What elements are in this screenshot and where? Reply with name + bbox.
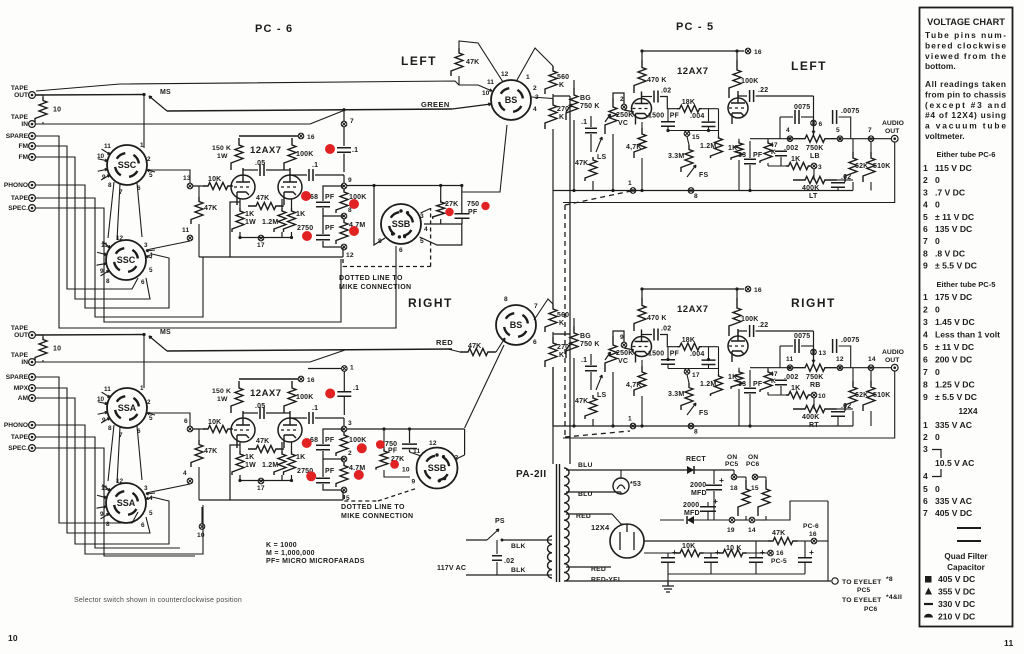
resistor 100K plate (L) [284, 138, 296, 170]
svg-text:250K: 250K [616, 350, 634, 357]
svg-text:.02: .02 [661, 326, 671, 333]
resistor 47K tone (R) [760, 370, 772, 392]
svg-text:K: K [559, 82, 564, 89]
svg-text:17: 17 [692, 372, 700, 379]
svg-text:7: 7 [534, 303, 538, 310]
svg-text:1: 1 [350, 365, 354, 372]
svg-text:8: 8 [106, 521, 110, 528]
svg-text:8: 8 [923, 248, 928, 258]
node 2 (R) [621, 342, 627, 348]
svg-text:560: 560 [557, 74, 569, 81]
resistor 100K chain (L) [336, 189, 348, 213]
pot 250K VC (L) [605, 98, 617, 134]
svg-text:117V AC: 117V AC [437, 565, 466, 572]
svg-text:10: 10 [8, 633, 18, 643]
pot 400K LT (L) [793, 176, 837, 183]
svg-text:from pin to chassis: from pin to chassis [925, 89, 1006, 99]
switch FS (L) [687, 165, 696, 177]
svg-text:*53: *53 [630, 481, 641, 488]
svg-text:750: 750 [467, 201, 479, 208]
voltage chart sidebar [920, 8, 1013, 627]
svg-text:510K: 510K [873, 163, 891, 170]
svg-text:± 5.5 V DC: ± 5.5 V DC [935, 261, 977, 271]
terminal 19 [729, 517, 735, 523]
svg-text:.004: .004 [690, 351, 704, 358]
input selector wiring mesh (L) [36, 136, 396, 328]
resistor 10 (R) [35, 335, 61, 362]
resistor 270K (L) [545, 99, 557, 129]
wire top SSB row (L) [347, 185, 462, 187]
svg-text:12: 12 [346, 252, 354, 259]
node 8 bot (L) [688, 188, 694, 194]
svg-text:47: 47 [770, 142, 778, 149]
resistor 4.7K (L) [634, 128, 646, 158]
node 8 (L) [341, 213, 347, 219]
svg-text:100K: 100K [296, 394, 314, 401]
wire blk bottom [466, 574, 548, 576]
svg-text:+: + [760, 547, 765, 557]
wire signal bus (R) [167, 349, 452, 351]
svg-text:335 V AC: 335 V AC [935, 496, 972, 506]
svg-text:Selector switch shown in count: Selector switch shown in counterclockwis… [74, 597, 242, 604]
node 4 (L) [787, 136, 793, 142]
svg-text:16: 16 [307, 134, 315, 141]
cap 2000MFD a [713, 470, 715, 484]
wire vc (R) [612, 372, 614, 426]
svg-text:11: 11 [104, 143, 111, 150]
svg-text:a vacuum tube: a vacuum tube [925, 121, 1006, 131]
terminal TAPE OUT (R) [11, 325, 36, 339]
svg-text:AM: AM [18, 395, 29, 402]
svg-text:8: 8 [504, 296, 508, 303]
svg-text:LB: LB [810, 153, 820, 160]
node 17 (R) [258, 478, 264, 484]
svg-text:3.3M: 3.3M [668, 391, 684, 398]
node 15 (R) [684, 369, 690, 375]
svg-text:10 K: 10 K [726, 545, 742, 552]
svg-text:1K: 1K [245, 211, 254, 218]
svg-text:12AX7: 12AX7 [677, 304, 709, 315]
svg-text:BLK: BLK [511, 567, 526, 574]
terminal TAPE OUT (L) [11, 85, 36, 99]
svg-text:PA-2II: PA-2II [516, 469, 547, 480]
svg-text:6: 6 [141, 522, 145, 529]
tube socket SSB (R) [417, 448, 458, 489]
svg-text:.02: .02 [661, 88, 671, 95]
node 8 bot (R) [688, 423, 694, 429]
svg-text:47K: 47K [256, 438, 269, 445]
node 1 (R) [308, 368, 341, 370]
wire tape-in bus (R) [36, 361, 310, 363]
svg-text:PF: PF [753, 152, 763, 159]
svg-text:750 K: 750 K [580, 103, 600, 110]
svg-text:16: 16 [754, 287, 762, 294]
svg-text:12X4: 12X4 [591, 523, 610, 532]
svg-text:#4 of 12X4) using: #4 of 12X4) using [925, 110, 1006, 120]
tube socket SSC1 (L) [107, 145, 147, 185]
svg-text:bered clockwise: bered clockwise [925, 40, 1006, 50]
wire box left (L) [779, 117, 781, 139]
svg-text:405 V DC: 405 V DC [935, 508, 972, 518]
svg-text:+: + [713, 496, 718, 506]
node 7 (L) [343, 109, 345, 121]
svg-text:4: 4 [923, 330, 928, 340]
wire .22 drop (L) [813, 96, 815, 135]
terminal ON PC6 15 [752, 474, 758, 480]
svg-text:19: 19 [727, 527, 735, 534]
cap .004 (L) [708, 109, 710, 122]
svg-text:10: 10 [53, 346, 61, 353]
resistor 47K ps [768, 537, 798, 544]
wire to BS2 (R) [465, 345, 504, 428]
junction dots pc6 [372, 184, 375, 187]
svg-text:SPARE: SPARE [6, 133, 29, 140]
svg-text:100K: 100K [741, 316, 759, 323]
svg-text:TAPE: TAPE [11, 195, 29, 202]
wire out row (L) [750, 138, 790, 140]
node 16 (R) [298, 376, 304, 382]
node 17 (L) [258, 235, 264, 241]
resistor 47K tone (L) [760, 141, 772, 163]
svg-text:.7 V DC: .7 V DC [935, 187, 965, 197]
svg-text:4: 4 [183, 470, 187, 477]
terminal eyelet [832, 578, 838, 584]
svg-text:14: 14 [748, 527, 756, 534]
svg-text:BLU: BLU [578, 462, 593, 469]
svg-text:510K: 510K [873, 392, 891, 399]
pin numbers SSA2 (R) [100, 478, 153, 529]
terminal ON PC5 18 [731, 474, 737, 480]
terminal SPARE (L) [6, 133, 36, 140]
svg-text:4: 4 [149, 495, 153, 502]
svg-text:16: 16 [809, 531, 817, 538]
svg-text:560: 560 [557, 312, 569, 319]
svg-text:1K: 1K [296, 454, 305, 461]
resistor 47K col (R) [191, 440, 203, 467]
svg-text:1: 1 [628, 416, 632, 423]
svg-text:MFD: MFD [691, 490, 707, 497]
svg-text:Less than 1 volt: Less than 1 volt [935, 330, 1000, 340]
bus vertical left [552, 129, 554, 191]
terminal 14 [749, 517, 755, 523]
tube socket SSA1 (R) [107, 388, 147, 428]
resistor 27K (L) [440, 186, 442, 201]
svg-text:11: 11 [487, 79, 494, 86]
svg-text:BLK: BLK [511, 543, 526, 550]
svg-text:2: 2 [923, 305, 928, 315]
tube socket BS (L) [491, 80, 531, 120]
svg-text:5: 5 [923, 342, 928, 352]
svg-text:2: 2 [923, 175, 928, 185]
svg-text:18K: 18K [682, 99, 695, 106]
svg-text:1.2M: 1.2M [262, 462, 278, 469]
resistor 470K (R) [634, 298, 646, 331]
pot 750K LB (R) [793, 364, 837, 371]
svg-text:47K: 47K [256, 195, 269, 202]
svg-text:4: 4 [923, 200, 928, 210]
cathode box wires (R) [230, 445, 343, 500]
wire out bottom (L) [563, 142, 895, 203]
svg-text:47K: 47K [468, 343, 481, 350]
cap .0075 a (L) [780, 116, 793, 118]
wire ls bottom (L) [592, 181, 594, 191]
wire signal bus (L) [167, 109, 452, 111]
svg-text:1K: 1K [791, 385, 800, 392]
svg-text:VOLTAGE CHART: VOLTAGE CHART [927, 17, 1005, 27]
terminal SPEC. (L) [8, 205, 35, 212]
cap 2750PF (L) [322, 216, 324, 234]
svg-text:47K: 47K [575, 160, 588, 167]
svg-text:.1: .1 [581, 119, 587, 126]
red dot L2 [301, 191, 311, 201]
svg-text:2750: 2750 [297, 225, 313, 232]
svg-text:8: 8 [108, 425, 112, 432]
cap .05 (L) [243, 169, 258, 171]
svg-text:bottom.: bottom. [925, 61, 956, 71]
svg-text:1: 1 [628, 180, 632, 187]
svg-text:K: K [559, 114, 564, 121]
node 7 out (L) [868, 136, 874, 142]
svg-text:400K: 400K [802, 414, 820, 421]
svg-text:Capacitor: Capacitor [947, 563, 986, 572]
switch MS (R) [149, 336, 167, 351]
resistor 1.2M (R) [274, 451, 286, 475]
svg-text:PF: PF [325, 194, 335, 201]
cap .0075 b (L) [814, 116, 831, 118]
node 3 tone (R) [811, 392, 817, 398]
resistor 3.3M (R) [681, 383, 693, 410]
svg-text:PF: PF [670, 351, 680, 358]
svg-text:2000: 2000 [690, 482, 706, 489]
pot BG 750K (R) [566, 326, 578, 358]
svg-text:47K: 47K [204, 205, 217, 212]
inductor LS (R) [596, 375, 602, 390]
BS pin labels (L) [482, 71, 539, 113]
svg-text:SPEC.: SPEC. [8, 205, 28, 212]
svg-text:SPEC.: SPEC. [8, 445, 28, 452]
svg-text:FM: FM [18, 143, 28, 150]
wire divider top (L) [517, 48, 553, 80]
svg-text:1: 1 [140, 142, 144, 149]
svg-text:1W: 1W [217, 396, 228, 403]
svg-text:10.5 V AC: 10.5 V AC [935, 458, 974, 468]
svg-text:12: 12 [836, 356, 844, 363]
wire to BS1 (L) [462, 125, 507, 192]
svg-text:2: 2 [348, 450, 352, 457]
wire blu mid [566, 491, 621, 493]
bleeder resistor a [738, 480, 750, 516]
svg-text:PC5: PC5 [725, 461, 739, 468]
node 16 (R) [745, 286, 751, 292]
resistor 1K 1W (L) [232, 208, 244, 232]
svg-text:47K: 47K [466, 59, 479, 66]
svg-text:750 K: 750 K [580, 341, 600, 348]
red dot R7 [354, 470, 364, 480]
grid resistor 10K (L) [193, 185, 205, 187]
svg-text:.0075: .0075 [841, 337, 860, 344]
terminal SPARE (R) [6, 374, 36, 381]
ps mid wires [660, 519, 684, 521]
svg-text:OUT: OUT [885, 128, 900, 135]
svg-text:0: 0 [935, 432, 940, 442]
svg-text:10K: 10K [208, 176, 221, 183]
resistor 3.3M (L) [681, 145, 693, 172]
svg-text:MIKE CONNECTION: MIKE CONNECTION [341, 513, 414, 520]
BS pin labels (R) [504, 296, 538, 346]
svg-text:TAPE: TAPE [11, 325, 29, 332]
svg-text:BS: BS [505, 95, 518, 105]
svg-text:.02: .02 [504, 558, 514, 565]
svg-text:2: 2 [923, 432, 928, 442]
svg-text:.002: .002 [784, 374, 798, 381]
svg-text:LEFT: LEFT [401, 54, 437, 68]
svg-text:6: 6 [923, 496, 928, 506]
inductor LS (L) [596, 137, 602, 152]
svg-text:1.2M: 1.2M [700, 381, 716, 388]
cap .02 (R) [642, 334, 653, 336]
svg-text:RIGHT: RIGHT [791, 296, 836, 310]
resistor 510K (R) [863, 381, 875, 411]
tube socket SSC2 (L) [106, 240, 146, 280]
resistor 1.2M (R) [711, 374, 723, 396]
svg-text:330 V DC: 330 V DC [938, 599, 975, 609]
svg-text:12AX7: 12AX7 [250, 388, 282, 399]
svg-text:200 V DC: 200 V DC [935, 355, 972, 365]
svg-text:3: 3 [420, 213, 424, 220]
svg-text:7: 7 [923, 508, 928, 518]
svg-text:All readings taken: All readings taken [925, 79, 1006, 89]
wire 12x4 heater [566, 513, 612, 515]
cap .1 (R) [590, 354, 592, 365]
svg-text:SSA: SSA [117, 498, 136, 508]
svg-text:PHONO: PHONO [4, 422, 28, 429]
svg-text:470 K: 470 K [647, 315, 667, 322]
svg-text:+: + [715, 547, 720, 557]
tube socket BS (R) [496, 305, 536, 345]
resistor 100K chain (R) [336, 432, 348, 456]
cap 68PF (L) [323, 186, 344, 201]
resistor 100K (R) [729, 298, 741, 336]
svg-text:BS: BS [510, 320, 523, 330]
wire out bottom (R) [563, 371, 895, 438]
resistor 100K (L) [729, 60, 741, 98]
svg-text:47: 47 [770, 371, 778, 378]
cap 750PF (L) [461, 186, 463, 214]
wire B+ row [644, 540, 768, 542]
svg-text:2000: 2000 [683, 502, 699, 509]
svg-text:3: 3 [818, 164, 822, 171]
right bus vertical [827, 501, 829, 581]
svg-text:16: 16 [307, 377, 315, 384]
resistor 270K (R) [545, 337, 557, 367]
node 3 tone (L) [811, 163, 817, 169]
svg-text:6: 6 [819, 121, 823, 128]
resistor 4.7K (R) [634, 366, 646, 396]
cap .02 tone (R) [831, 412, 845, 416]
svg-text:PF= MICRO MICROFARADS: PF= MICRO MICROFARADS [266, 558, 365, 565]
pot 250K VC (R) [605, 336, 617, 372]
svg-text:K = 1000: K = 1000 [266, 542, 297, 549]
svg-text:4,7K: 4,7K [626, 144, 642, 151]
svg-text:DOTTED LINE TO: DOTTED LINE TO [341, 504, 405, 511]
SSB pin dots (R) [435, 453, 438, 456]
tube socket SSB (L) [381, 204, 421, 244]
svg-text:6: 6 [923, 224, 928, 234]
resistor 1K mid (L) [786, 162, 811, 169]
svg-text:100K: 100K [741, 78, 759, 85]
svg-text:OUT: OUT [14, 332, 28, 339]
svg-text:PF: PF [670, 113, 680, 120]
svg-text:355 V DC: 355 V DC [938, 587, 975, 597]
svg-text:405 V DC: 405 V DC [938, 574, 975, 584]
wire ls bottom (R) [592, 419, 594, 426]
tube socket SSA2 (R) [106, 483, 146, 523]
svg-text:10: 10 [482, 90, 490, 97]
svg-text:Tube pins num-: Tube pins num- [925, 30, 1006, 40]
svg-text:OUT: OUT [885, 357, 900, 364]
svg-text:18: 18 [730, 485, 738, 492]
node 11 (L) [187, 235, 193, 241]
resistor 47K ls (L) [585, 157, 597, 181]
resistor 10K b [719, 549, 747, 556]
cap .02 (L) [642, 96, 653, 98]
svg-text:4: 4 [786, 127, 790, 134]
resistor 47K col (L) [191, 197, 203, 224]
node 8 (R) [341, 456, 347, 462]
svg-text:AUDIO: AUDIO [882, 120, 904, 127]
svg-text:+: + [672, 547, 677, 557]
cap 33PF (L) [749, 141, 751, 158]
node 16 pc6 [811, 538, 817, 544]
resistor 1.2M (L) [274, 208, 286, 232]
transformer secondary coil [564, 468, 569, 581]
resistor 10K a [676, 549, 704, 556]
svg-text:3: 3 [144, 242, 148, 249]
svg-text:7: 7 [923, 236, 928, 246]
svg-text:0: 0 [935, 200, 940, 210]
svg-text:8: 8 [694, 429, 698, 436]
svg-text:+: + [809, 547, 814, 557]
cap 1500PF (L) [667, 109, 669, 121]
wire .22 drop (R) [813, 331, 815, 364]
node 16 (L) [298, 133, 304, 139]
svg-text:100K: 100K [296, 151, 314, 158]
svg-text:MIKE CONNECTION: MIKE CONNECTION [339, 284, 412, 291]
svg-text:8: 8 [108, 182, 112, 189]
svg-text:voltmeter.: voltmeter. [925, 131, 965, 141]
wire vc (L) [612, 134, 614, 191]
svg-text:4: 4 [533, 106, 537, 113]
svg-text:LS: LS [597, 154, 606, 161]
terminal MPX (R) [14, 385, 36, 392]
node 9 (L) [341, 183, 347, 189]
node 6 (R) [187, 426, 193, 432]
resistor 62K (R) [845, 381, 857, 411]
svg-text:13: 13 [819, 350, 827, 357]
resistor 150K (L) [231, 138, 243, 170]
svg-text:10: 10 [53, 107, 61, 114]
svg-text:6: 6 [923, 355, 928, 365]
red dot L5 [349, 226, 359, 236]
wire fb (L) [668, 130, 719, 132]
triode A (L) [231, 168, 255, 205]
filter caps row [661, 558, 675, 562]
diode 2 [687, 516, 694, 524]
svg-text:4: 4 [424, 226, 428, 233]
svg-text:150 K: 150 K [212, 388, 231, 395]
svg-text:TO EYELET: TO EYELET [842, 579, 882, 586]
svg-text:PC6: PC6 [746, 461, 760, 468]
